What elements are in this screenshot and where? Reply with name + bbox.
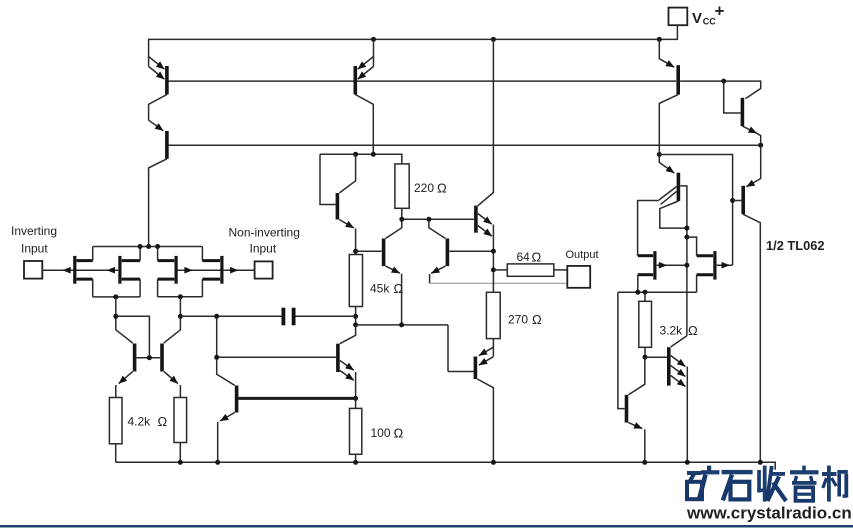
wire 3.2k bottom to Q14 base node [644,347,646,357]
wire branch to J6 drain [687,237,697,256]
svg-text:3.2k: 3.2k [660,324,684,338]
transistor Q10 dual-collector PNP bias [638,155,687,336]
transistor Q11 NPN upper-right [724,81,761,145]
node junction x=401.8 y=219.3 [399,217,404,222]
Output terminal box [566,249,599,288]
wire second bias rail y=144.4 [167,144,761,146]
transistor Q1 dual-emitter PNP top-left [149,57,167,121]
capacitor C1 compensation [283,308,293,326]
svg-text:270: 270 [508,313,528,327]
transistor QM2 NPN mirror load right [162,344,180,398]
node junction Q4 base node x=355.6 y=251.2 [353,249,358,254]
transistor Q2 PNP below Q1 [149,120,167,246]
wire mirror base line y=357.7 [137,357,161,359]
transistor Q13 NPN bias bottom [627,357,645,462]
Non-inverting Input terminal box [229,226,300,279]
svg-text:220: 220 [414,181,434,195]
svg-text:www.crystalradio.cn: www.crystalradio.cn [686,504,852,523]
resistor R220 220 ohm [395,164,447,208]
JFET J3 input P-JFET [158,247,177,297]
wire base bias rail y=81 [167,80,676,82]
svg-text:Non-inverting: Non-inverting [229,226,300,240]
transistor Q6 NPN output emitter-follower [476,39,494,292]
node junction x=180.4 y=296.8 [178,294,183,299]
wire non-inverting gate line [176,269,255,271]
watermark CJK logo [687,466,848,502]
wire non-inverting drain line y=296.8 [158,296,203,298]
node junction x=355.6 y=324.9 [353,322,358,327]
node junction x=686.9 y=228.1 [684,226,689,231]
wire y=154.5 right link and vertical to J6 gate [659,155,732,266]
node junction x=115.8 y=316.3 [113,314,118,319]
wire base line y=219.3 from 220ohm node to Q6 [402,218,474,220]
resistor R64 64 ohm [507,250,554,277]
resistor R3.2k 3.2 k ohm [639,301,698,347]
svg-text:Ω: Ω [532,312,542,327]
node junction x=428.9 y=219.3 [426,217,431,222]
node junction x=686.9 y=237.1 [684,235,689,240]
JFET J2 input P-JFET [120,247,140,297]
node junction rail x=493.4 [491,460,496,465]
node junction y=154.3 x=373.3 [371,152,376,157]
node junction x=216.7 y=316.3 [214,314,219,319]
node junction rail x=217.7 [215,460,220,465]
transistor Q4 NPN cascode left [356,219,402,325]
node junction x=645 y=357.2 [643,355,648,360]
node junction top rail at x=493.4 [491,37,496,42]
gate arrow of J5 [659,262,667,269]
node junction x=216.7 y=357.3 [214,355,219,360]
resistor R45k 45 k ohm [349,255,403,307]
wire Q14 base line y=357.2 [645,356,667,358]
node junction x=659.3 y=154.5 [657,152,662,157]
svg-text:64: 64 [517,250,531,264]
node junction output node x=493.4 y=269.9 [491,267,496,272]
transistor QM1 NPN mirror load left [116,344,135,398]
node junction top rail at x=659.3 [657,37,662,42]
node junction x=140.1 y=246.5 [138,244,143,249]
svg-text:Output: Output [566,249,599,261]
wire R4.2kB bottom to rail [179,443,181,463]
node junction tail x=149.5 y=246.5 [146,244,151,249]
node junction x=355.6 y=316.3 [353,314,358,319]
wire node line y=154.3 feeding 220 ohm [320,154,402,164]
wire 3.2k top [644,292,646,301]
node junction top rail at x=373.5 [371,37,376,42]
svg-text:Ω: Ω [688,323,698,338]
node junction y=154.3 x=355.6 [353,152,358,157]
node junction Q8 base x=493.4 y=251.2 [491,249,496,254]
svg-text:Ω: Ω [532,250,542,265]
gate arrow of J2 [107,267,115,274]
wire VCC stem and top VCC rail [149,25,678,66]
svg-text:V: V [692,10,702,27]
node junction rail x=687.3 [685,460,690,465]
transistor Q3m dual-emitter PNP mirror (top middle) [355,39,373,154]
node junction x=115.8 y=296.9 [113,294,118,299]
node junction x=645 y=292.2 [643,290,648,295]
node junction x=180.4 y=316.3 [178,314,183,319]
svg-text:45k: 45k [370,282,390,296]
wire inverting drain vertical to mirror [116,297,133,343]
svg-text:Ω: Ω [437,181,447,196]
transistor Q3 diode-connected NPN [320,154,356,254]
wire 100 ohm top [355,398,357,408]
gate arrow of J4 [230,267,238,274]
svg-text:4.2k: 4.2k [128,415,152,429]
node junction rail x=760.3 [758,460,763,465]
svg-text:+: + [715,2,725,21]
JFET J6 current-source P-JFET right [697,251,733,292]
node junction x=401.6 y=324.9 [399,322,404,327]
node junction x=637.8 y=292.2 [635,290,640,295]
transistor Q8 NPN cascode right [429,219,494,283]
svg-text:Input: Input [250,242,277,256]
svg-text:100: 100 [371,426,391,440]
wire grey output feed line y=283.4 [430,282,568,284]
wire 45k bottom to cap node [355,307,357,325]
wire 64 ohm to output box [554,269,568,271]
resistor R4.2kB 4.2 k ohm right [174,398,187,443]
node junction bias rail x=723.7 [721,79,726,84]
wire Q13 base branch vertical x=617.9 [618,292,625,408]
node junction Q12 base x=732.6 y=200.5 [730,198,735,203]
bottom border line [0,525,853,528]
wire negative supply rail [116,462,776,470]
wire common source top line y=246.5 [93,246,203,248]
wire thick Q7 base feed y=398.4 [238,397,355,400]
resistor R270 270 ohm [486,292,542,338]
JFET J1 input P-JFET [75,247,93,297]
transistor Q9 PNP top-right [659,39,678,154]
transistor Q12 PNP right bias [733,145,761,462]
wire R4.2kA bottom to rail [115,444,117,463]
node junction rail x=355.6 [353,460,358,465]
wire 220 ohm bottom to node y=219.3 [401,208,403,219]
wire inverting drain line y=296.9 [93,296,140,298]
gate arrow of J1 [62,267,70,274]
JFET J5 current-source P-JFET left [638,251,687,292]
node junction rail x=180.3 [178,460,183,465]
node junction x=157.6 y=246.5 [155,244,160,249]
node junction x=355.6 y=398.4 [353,396,358,401]
node junction x=149.4 y=357.7 [147,355,152,360]
node junction J5 gate x=686.9 y=265.2 [684,263,689,268]
wire inverting gate line [42,269,118,271]
wire 100 ohm bottom to rail [355,454,357,462]
gate arrow of J3 [184,267,192,274]
transistor Q14 triple-emitter NPN [669,336,688,463]
wire source line y=292.2 [618,291,697,293]
wire compensation node line y=324.9 [356,324,448,326]
transistor QO dual-emitter PNP output low side [448,325,493,462]
VCC+ terminal box [669,2,725,28]
svg-text:Input: Input [21,242,48,256]
resistor R100 100 ohm [350,408,404,454]
wire capacitor right side to 45k node [296,315,356,317]
svg-text:Ω: Ω [394,426,404,441]
resistor R4.2kA 4.2 k ohm left [109,398,167,444]
JFET J4 input P-JFET [202,247,222,297]
node junction rail x=644.8 [642,460,647,465]
transistor Q7 NPN discharge [217,316,237,462]
svg-text:1/2 TL062: 1/2 TL062 [766,238,825,253]
wire non-inverting drain vertical to mirror [164,297,181,343]
node junction rail end x=760.7 y=144.4 [758,143,763,148]
wire compensation line y=316.3 to capacitor [180,315,281,317]
gate arrow of J6 [722,262,730,269]
transistor Q5 dual-emitter NPN second stage [217,325,356,399]
wire diode connection y=316.3 left [116,316,150,357]
wire output node to 64 ohm [493,269,507,271]
wire bias rail right of Q9 to Q11 collector [680,81,761,99]
svg-text:Ω: Ω [158,414,168,429]
Inverting Input terminal box [11,224,57,279]
svg-text:Inverting: Inverting [11,224,57,238]
